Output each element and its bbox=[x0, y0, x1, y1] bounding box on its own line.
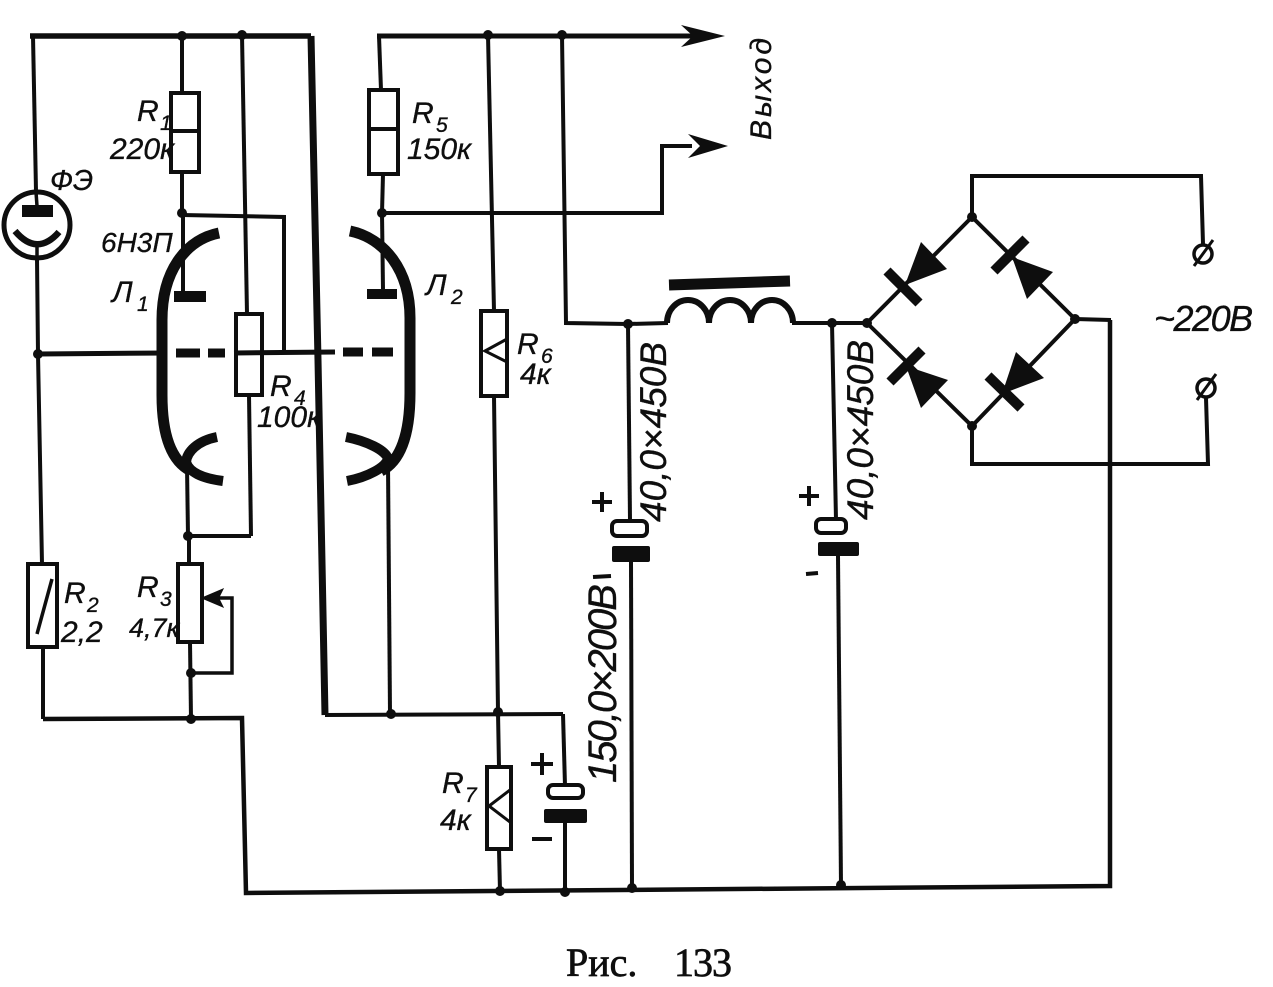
wire R3 top lead bbox=[187, 536, 191, 564]
svg-text:ФЭ: ФЭ bbox=[50, 165, 93, 197]
tube L1 cathode bbox=[186, 437, 223, 481]
svg-text:R: R bbox=[270, 370, 292, 403]
svg-text:Рис.: Рис. bbox=[566, 940, 637, 985]
choke core bar bbox=[669, 281, 790, 285]
diode D3 bottom-left triangle bbox=[906, 366, 948, 408]
svg-text:150,0×200В: 150,0×200В bbox=[581, 585, 625, 783]
svg-text:6Н3П: 6Н3П bbox=[101, 227, 173, 258]
wire C2 top lead bbox=[832, 323, 836, 520]
svg-text:R: R bbox=[442, 767, 464, 800]
node bridge top bbox=[967, 212, 977, 222]
wire bridge top corner to upper AC terminal bbox=[972, 176, 1203, 244]
svg-text:2: 2 bbox=[450, 286, 463, 309]
svg-text:2,2: 2,2 bbox=[60, 616, 103, 649]
wire R1 top lead bbox=[180, 36, 184, 93]
svg-text:R: R bbox=[64, 577, 86, 610]
svg-text:Л: Л bbox=[110, 276, 133, 309]
AC terminal upper bbox=[1194, 245, 1212, 263]
node R3 wiper bottom bbox=[186, 668, 196, 678]
node ground bus at C2 bbox=[836, 880, 846, 890]
AC terminal lower bbox=[1197, 379, 1215, 397]
node ground bus at C1 bbox=[627, 883, 637, 893]
resistor R7 inner mark bbox=[489, 790, 510, 822]
wire R2 bottom lead bbox=[41, 647, 45, 719]
tube L2 envelope arc bbox=[350, 231, 410, 471]
node bridge right bbox=[1070, 314, 1080, 324]
capacitor C3 minus bbox=[532, 837, 552, 841]
wire R6 top lead from bus bbox=[488, 35, 494, 311]
wire R5 bottom lead bbox=[382, 174, 383, 213]
wire L2 cathode lead bbox=[388, 464, 390, 714]
diode D3 bar bbox=[890, 350, 922, 382]
svg-text:Л: Л bbox=[424, 269, 447, 302]
wire C3 bottom lead bbox=[563, 823, 567, 892]
tube L1 envelope arc bbox=[162, 233, 219, 471]
wire R4 bottom lead bbox=[249, 395, 251, 536]
svg-text:40,0×450В: 40,0×450В bbox=[840, 340, 881, 520]
diode D1 bar bbox=[887, 271, 919, 303]
diode D2 bar bbox=[994, 239, 1026, 271]
node ground bus at C3 bbox=[560, 887, 570, 897]
node R3 at ground bus bbox=[186, 714, 196, 724]
node choke right / C2 bbox=[827, 318, 837, 328]
svg-text:R: R bbox=[137, 571, 159, 604]
wire C2 bottom lead bbox=[838, 556, 841, 885]
svg-text:Выход: Выход bbox=[745, 35, 778, 140]
node top bus at R4 bbox=[237, 30, 247, 40]
wire long vertical from top bus right corner down to lower rail bbox=[311, 36, 325, 715]
diode D1 top-left triangle bbox=[905, 242, 947, 285]
wire cathode junction link bbox=[188, 534, 251, 538]
diode D2 top-right triangle bbox=[1012, 257, 1053, 299]
tube L1 anode plate bbox=[174, 291, 206, 302]
wire C1 top lead bbox=[628, 324, 630, 521]
node photocell grid bbox=[33, 349, 43, 359]
svg-text:100к: 100к bbox=[257, 401, 323, 434]
output arrow 2 bbox=[688, 134, 728, 158]
wire R3 wiper to bottom bbox=[191, 598, 232, 673]
wire coupling from R1 bottom to grid corner bbox=[182, 215, 284, 352]
wire L1 anode lead bbox=[181, 213, 185, 291]
node R1 bottom / anode L1 bbox=[177, 208, 187, 218]
node cathode L1 / R3 top bbox=[183, 531, 193, 541]
wire R1 bottom lead bbox=[180, 172, 184, 213]
resistor R6 body bbox=[481, 311, 507, 396]
wire bridge bottom corner to lower AC terminal bbox=[972, 398, 1208, 464]
wire L1 cathode lead bbox=[187, 466, 188, 536]
capacitor C3 plus bbox=[531, 753, 553, 775]
capacitor C2 minus bbox=[806, 573, 818, 574]
resistor R3 wiper arrowhead bbox=[203, 590, 222, 606]
wire choke right link to bridge bbox=[792, 321, 867, 325]
capacitor C3 bottom plate bbox=[544, 809, 587, 823]
node top bus at R1 bbox=[177, 31, 187, 41]
resistor R1 body bbox=[171, 93, 199, 172]
photocell FE anode plate bbox=[22, 205, 53, 217]
output arrow 1 bbox=[681, 25, 725, 47]
diode D4 bar bbox=[988, 376, 1021, 408]
capacitor C1 bottom plate bbox=[612, 546, 650, 562]
wire from bus down to choke node bbox=[562, 35, 628, 324]
wire grid line solid left part bbox=[38, 353, 166, 354]
resistor R2 body bbox=[28, 564, 57, 647]
wire lower mid rail from corner to C3 corner bbox=[325, 714, 563, 715]
tube L2 cathode bbox=[346, 437, 388, 481]
tube L2 anode plate bbox=[367, 289, 397, 299]
photocell FE cathode arc bbox=[15, 231, 59, 244]
svg-text:3: 3 bbox=[160, 588, 172, 611]
resistor R5 body bbox=[369, 90, 398, 174]
svg-text:150к: 150к bbox=[407, 133, 473, 166]
wire R5 junction rail to output 2 corner bbox=[382, 146, 692, 213]
node R5 bottom / anode L2 bbox=[377, 208, 387, 218]
svg-text:1: 1 bbox=[160, 112, 172, 135]
svg-text:2: 2 bbox=[86, 594, 99, 617]
capacitor C2 top plate bbox=[816, 519, 846, 533]
svg-text:1: 1 bbox=[137, 293, 149, 316]
wire R7 bottom lead bbox=[499, 849, 500, 891]
node bridge bottom bbox=[967, 421, 977, 431]
capacitor C1 top plate bbox=[612, 521, 647, 536]
node output bus at choke drop bbox=[557, 30, 567, 40]
capacitor C1 plus bbox=[592, 492, 612, 512]
wire L2 anode lead bbox=[382, 213, 383, 290]
resistor R2 slash bbox=[37, 579, 52, 634]
svg-text:~220В: ~220В bbox=[1154, 298, 1252, 339]
node output bus at R6 bbox=[483, 30, 493, 40]
svg-text:R: R bbox=[137, 95, 159, 128]
svg-text:4к: 4к bbox=[520, 358, 553, 391]
capacitor C3 top plate bbox=[548, 785, 583, 798]
wire choke left link bbox=[628, 323, 668, 324]
wire grid solid through R4 to coupling corner bbox=[234, 352, 335, 353]
resistor R6 inner mark bbox=[485, 339, 507, 362]
capacitor C1 minus bbox=[593, 576, 611, 577]
node bridge left bbox=[862, 318, 872, 328]
photocell FE plate stub bbox=[36, 192, 37, 206]
wire top bus right (output rail) bbox=[377, 34, 695, 39]
wire bridge diamond edges bbox=[867, 217, 1075, 426]
resistor R3 body bbox=[178, 564, 202, 642]
capacitor C2 bottom plate bbox=[818, 542, 859, 556]
wire R5 top lead bbox=[379, 36, 381, 90]
wire top bus left (B+ rail over L1 stage) bbox=[30, 33, 311, 39]
svg-text:R: R bbox=[517, 328, 539, 361]
svg-text:R: R bbox=[412, 97, 434, 130]
node ground bus at R7 bbox=[495, 886, 505, 896]
wire grid dashes of tube L2 bbox=[343, 348, 393, 357]
photocell FE cathode stub bbox=[35, 244, 39, 259]
choke winding bbox=[667, 300, 793, 323]
resistor R7 body bbox=[487, 767, 511, 849]
wire C1 bottom lead bbox=[631, 562, 632, 888]
wire R6 to R7 series link bbox=[494, 396, 499, 767]
node R6-R7 at rail bbox=[493, 707, 503, 717]
wire bridge right corner to vertical bbox=[1075, 319, 1111, 320]
wire R4 top lead from top bus bbox=[242, 35, 247, 314]
svg-text:133: 133 bbox=[674, 940, 731, 985]
wire R3 bottom lead bbox=[190, 642, 191, 719]
photocell FE envelope bbox=[4, 192, 70, 258]
svg-text:40,0×450В: 40,0×450В bbox=[633, 342, 674, 522]
svg-text:220к: 220к bbox=[109, 133, 176, 166]
wire C3 top lead bbox=[563, 714, 565, 786]
svg-text:4к: 4к bbox=[440, 804, 473, 837]
diode D4 bottom-right triangle bbox=[1002, 352, 1044, 394]
node cathode L2 at rail bbox=[386, 709, 396, 719]
svg-text:4,7к: 4,7к bbox=[129, 613, 181, 643]
wire bottom ground bus bbox=[43, 320, 1110, 893]
wire photocell bottom lead down to grid node and R2 bbox=[37, 258, 42, 564]
capacitor C2 plus bbox=[799, 486, 819, 506]
resistor R4 body bbox=[236, 314, 262, 395]
wire grid dashes of tube L1 bbox=[176, 349, 225, 358]
node choke left / C1 bbox=[623, 319, 633, 329]
wire photocell top lead bbox=[33, 36, 36, 191]
